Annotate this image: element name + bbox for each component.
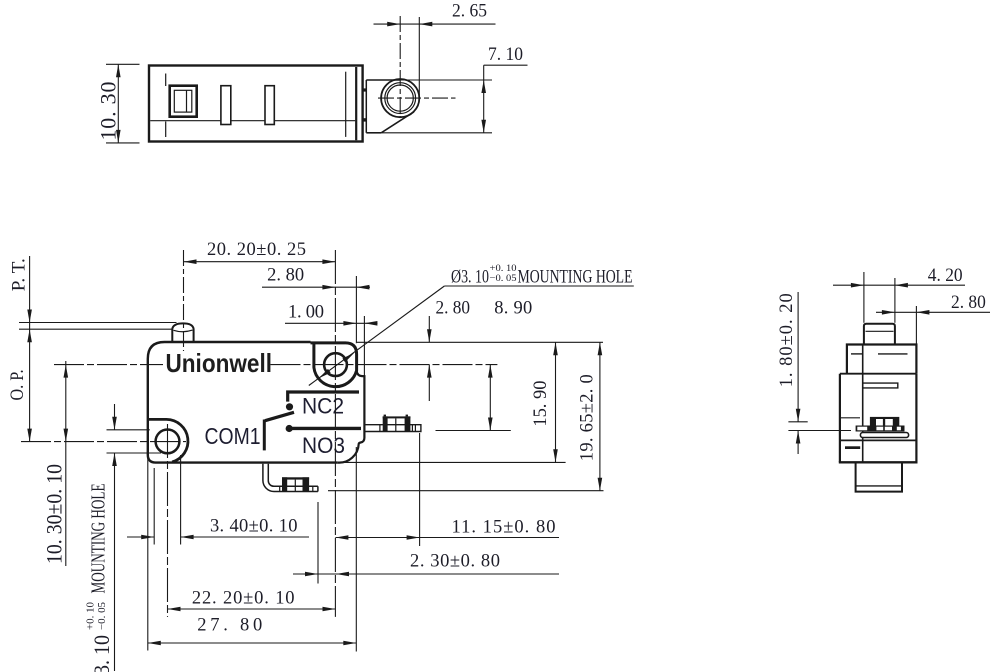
top view: case parting line — [150, 120, 355, 122]
dimension 10.30±0.10: vertical dimension line and arrows — [65, 361, 67, 566]
top view: plunger square inner — [174, 90, 192, 112]
side view: right edge — [915, 374, 917, 463]
dimension 3.40±0.10: dimension line and arrows — [127, 536, 154, 538]
dimension 15.90: dimension line and arrows — [555, 342, 557, 462]
front view: bottom-left mounting ear outline — [149, 419, 188, 462]
front view: plunger dome witness line — [174, 330, 193, 332]
hole diameter 3.10 dim: reference lines — [107, 429, 150, 431]
dimension 2.80 side: dimension line and arrows — [876, 311, 990, 313]
front view: top-right mounting ear outline — [311, 343, 357, 387]
top view: lever bracket left edge — [365, 80, 367, 133]
extension line: body left edge down — [147, 456, 149, 651]
COM terminal: crimp pad dividers — [294, 480, 296, 492]
dimension 20.20±0.25: dimension line and arrows — [184, 261, 336, 263]
extension lines: bottom hole edges down — [153, 468, 155, 545]
dimension 7.10: bottom reference line — [381, 132, 492, 134]
top view: weld tabs — [363, 88, 366, 91]
svg-text:NO3: NO3 — [302, 433, 345, 458]
operating position line — [19, 328, 172, 330]
side view: left edge — [839, 374, 841, 463]
dimension 7.10: top reference line (tangent) — [400, 79, 492, 81]
dimension 27.80: dimension line and arrows — [148, 642, 356, 644]
side view: terminal blade bar — [860, 433, 908, 438]
side view: lower-left dash mark — [845, 446, 860, 449]
dimension P.T./O.P.: vertical dimension line — [29, 256, 31, 442]
COM terminal: blade end cap — [317, 486, 319, 491]
top view: lever bracket bottom edge — [366, 132, 381, 134]
svg-text:15. 90: 15. 90 — [531, 381, 551, 427]
dimension 2.30±0.80: dimension line and arrows — [293, 573, 559, 575]
schematic: NO contact dot — [286, 425, 293, 432]
svg-text:NC2: NC2 — [302, 394, 344, 419]
dimension 7.10: shelf line — [484, 64, 528, 66]
extension line: body right edge for 1.00 — [363, 316, 365, 376]
svg-text:4. 20: 4. 20 — [928, 266, 963, 286]
hole diameter 3.10 dim: upper line with arrow — [114, 404, 116, 430]
svg-text:−0. 05: −0. 05 — [97, 602, 108, 630]
svg-text:19. 65±2. 0: 19. 65±2. 0 — [578, 374, 598, 461]
side view: plunger witness line — [866, 330, 894, 332]
top view: right internal wall line — [345, 72, 347, 137]
schematic: common lever — [265, 412, 294, 420]
svg-text:O. P.: O. P. — [8, 370, 28, 401]
svg-text:10. 30: 10. 30 — [96, 82, 121, 141]
svg-text:2. 80: 2. 80 — [436, 299, 471, 319]
plunger vertical centerline — [183, 250, 185, 351]
side view: spring witness line — [841, 417, 860, 419]
svg-text:+0. 10: +0. 10 — [490, 264, 517, 274]
top view: switch body outline — [149, 66, 363, 142]
svg-text:MOUNTING HOLE: MOUNTING HOLE — [518, 268, 633, 288]
dimension 2.80 right: dimension line segments and arrows — [428, 316, 430, 342]
top-right hole horizontal centerline (through hole to right) — [271, 364, 498, 366]
svg-text:2. 65: 2. 65 — [452, 2, 487, 22]
side view: bottom block inner line — [856, 485, 902, 487]
svg-text:2. 80: 2. 80 — [951, 293, 986, 313]
mounting hole note: leader diagonal — [309, 286, 445, 386]
top view: left internal witness lines — [165, 74, 167, 87]
dimension 1.80±0.20: dimension line segments and arrows — [797, 292, 799, 422]
dimension 8.90: dimension line and arrows — [489, 365, 491, 431]
side view: internal boundary line — [840, 439, 917, 441]
svg-text:11. 15±0. 80: 11. 15±0. 80 — [452, 518, 556, 538]
COM terminal: crimp pad bars — [282, 477, 287, 491]
top view: plunger inner edge line — [186, 90, 188, 112]
dimension 2.80: dimension line and arrows — [262, 286, 370, 288]
svg-text:−0. 05: −0. 05 — [490, 274, 517, 284]
extension line: ear right edge down — [355, 447, 357, 652]
side view: top section dash lines — [851, 353, 864, 355]
svg-text:2. 30±0. 80: 2. 30±0. 80 — [410, 552, 500, 572]
extension line: NO blade bottom extended right — [436, 430, 511, 432]
side view: section step line — [840, 373, 917, 375]
svg-text:MOUNTING HOLE: MOUNTING HOLE — [88, 484, 110, 594]
dimension 4.20: dimension line and arrows — [833, 284, 965, 286]
dimension 7.10: dimension line and arrows — [483, 65, 485, 133]
extension line: ear right edge above body — [355, 276, 357, 343]
top view: lever bracket diagonal cut — [381, 112, 414, 133]
svg-text:3. 40±0. 10: 3. 40±0. 10 — [210, 517, 298, 537]
top view: boss chamfer circles — [385, 83, 416, 114]
extension line: NO blade end down — [419, 433, 421, 546]
front view: plunger outline — [172, 323, 193, 342]
side view: internal seam — [862, 345, 864, 463]
svg-text:20. 20±0. 25: 20. 20±0. 25 — [207, 240, 306, 260]
dimension 10.30 (top view): dimension line and arrows — [117, 64, 119, 143]
svg-text:+0. 10: +0. 10 — [86, 602, 97, 630]
NO terminal: blade outline — [365, 425, 421, 432]
schematic: NC contact line to terminal 2 — [288, 392, 359, 402]
side view: plunger — [864, 324, 895, 345]
front view: body outline (left, bottom, top edges) — [148, 342, 338, 463]
dimension 1.80±0.20: reference lines — [788, 421, 807, 423]
top view: vent slot 2 — [265, 86, 274, 125]
svg-text:7. 10: 7. 10 — [488, 45, 523, 65]
dimension 19.65±2.0: dimension line and arrows — [599, 342, 601, 490]
schematic: common pole bar — [263, 420, 266, 451]
extension line: body top edge extended right — [357, 341, 603, 343]
svg-text:P. T.: P. T. — [10, 258, 30, 291]
dimension 2.80 side: extension line — [915, 306, 917, 344]
schematic: NO contact line to terminal 3 — [292, 427, 362, 430]
bottom-left hole horizontal centerline — [21, 441, 186, 443]
dimension 2.65: extension line at boss right edge — [418, 17, 420, 97]
top view: boss vertical centerline — [399, 16, 401, 117]
top view: boss outer circle — [381, 79, 419, 117]
bottom-left hole vertical centerline / extension — [167, 424, 169, 617]
svg-text:Unionwell: Unionwell — [166, 348, 273, 378]
side view: terminal crimp row 1 — [870, 417, 899, 426]
mounting hole note: leader arrowheads — [342, 353, 354, 362]
svg-text:3. 10: 3. 10 — [89, 635, 114, 672]
free position line — [19, 322, 177, 324]
front view: top-right mounting hole — [324, 353, 347, 376]
top-right hole horizontal centerline (left of label) — [54, 364, 163, 366]
side view: side slot — [863, 383, 898, 388]
dimension 1.00: dimension line and arrows — [285, 322, 378, 324]
top-right hole vertical centerline / extension — [334, 250, 336, 617]
extension line: COM foot end down — [317, 502, 319, 584]
top view: vent slot 1 — [221, 86, 231, 125]
svg-text:8. 90: 8. 90 — [494, 299, 532, 319]
svg-text:1. 80±0. 20: 1. 80±0. 20 — [777, 293, 797, 387]
svg-text:1. 00: 1. 00 — [288, 303, 324, 323]
COM terminal: bent blade inner contour — [268, 464, 318, 487]
schematic: NC contact dot — [286, 403, 293, 410]
mounting hole note: leader underline — [444, 285, 633, 287]
dimension 4.20: extension lines — [863, 272, 865, 323]
svg-text:2. 80: 2. 80 — [267, 266, 304, 286]
top view: lever bracket top edge — [366, 79, 400, 81]
NO terminal: crimp pad bars — [383, 416, 388, 431]
svg-text:10. 30±0. 10: 10. 30±0. 10 — [42, 464, 67, 564]
dimension 2.65: dimension line and arrows — [374, 23, 496, 25]
extension line: body bottom edge extended right — [339, 461, 566, 463]
dimension 11.15±0.80: dimension line and arrows — [335, 537, 559, 539]
top view: inner right wall line — [355, 67, 357, 140]
dimension 22.20±0.10: dimension line and arrows — [168, 608, 336, 610]
front view: bottom-left mounting hole — [156, 430, 180, 454]
svg-text:Ø3. 10: Ø3. 10 — [451, 268, 489, 288]
hole diameter 3.10 dim: lower line with arrow — [114, 453, 116, 671]
svg-text:COM1: COM1 — [205, 423, 261, 449]
side view: top section outline — [847, 345, 917, 374]
svg-text:22. 20±0. 10: 22. 20±0. 10 — [192, 589, 295, 609]
front view: right edge with 1.00 step and terminal notch — [338, 371, 365, 463]
NO terminal: crimp pad dividers — [395, 418, 397, 431]
COM terminal: bent blade outer contour — [263, 464, 318, 492]
side view: bottom block — [856, 462, 902, 491]
top view: plunger square outer — [170, 86, 197, 117]
extension line: COM terminal bottom extended right — [328, 490, 604, 492]
side view: bottom edge — [839, 461, 918, 463]
dimension 10.30 (top view): extension lines — [106, 63, 140, 65]
top view: boss horizontal centerline — [378, 97, 456, 99]
side view: terminal crimp row 2 — [856, 426, 905, 432]
